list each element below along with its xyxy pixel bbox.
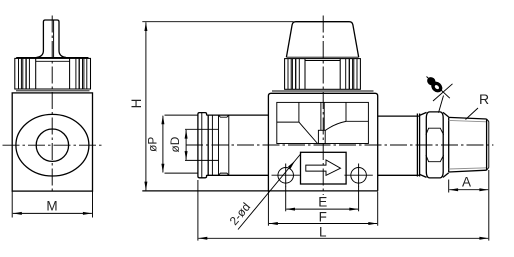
label R with leader — [466, 91, 490, 120]
ring flange line (main view) — [272, 90, 374, 92]
dimension A — [449, 174, 489, 192]
valve block outline (main view) — [268, 93, 377, 191]
dimension F — [268, 192, 377, 226]
block bottom and H extension line — [142, 190, 377, 192]
dimension H — [129, 22, 294, 191]
svg-text:øD: øD — [168, 137, 182, 153]
hex nut — [417, 112, 448, 178]
right slant — [325, 121, 346, 130]
knob knurled ring (main view) — [285, 57, 361, 89]
vertical centerline (main view) — [322, 16, 324, 196]
push-connect cap — [198, 113, 207, 178]
outer circle (left view) — [16, 114, 89, 176]
inner cavity box (main view) — [277, 102, 369, 143]
knob top trapezoid (main view) — [286, 22, 358, 58]
dimension øP — [146, 115, 198, 173]
svg-text:øP: øP — [146, 137, 160, 152]
svg-text:M: M — [46, 199, 57, 214]
dimension M — [12, 191, 92, 217]
left barrel — [207, 114, 269, 116]
tube diameter lines (øD geometry) — [185, 128, 219, 130]
right port circle — [344, 164, 372, 188]
svg-text:H: H — [129, 99, 144, 109]
stem tip — [318, 130, 325, 143]
ring flange line (left view) — [16, 90, 90, 92]
release collar — [208, 115, 229, 175]
svg-text:E: E — [318, 195, 327, 210]
threaded end R — [449, 117, 489, 172]
dimension E — [286, 187, 359, 212]
valve body square (left view) — [12, 93, 92, 191]
right cell divider — [345, 102, 347, 121]
svg-text:F: F — [319, 209, 327, 224]
knob centerline (left view) — [51, 16, 53, 192]
collar-barrel taper — [228, 115, 230, 175]
right barrel — [378, 115, 419, 117]
left diagonal — [299, 122, 318, 143]
dimension L — [198, 170, 489, 241]
svg-text:L: L — [319, 225, 327, 240]
svg-text:A: A — [462, 174, 471, 189]
horizontal centerline (main view) — [186, 144, 493, 146]
label 2-ød with leader — [227, 154, 301, 230]
sealant symbol (black) — [425, 75, 452, 112]
left cell divider — [298, 102, 300, 122]
knob stem (left view) — [37, 20, 66, 57]
horizontal centerline (left view) — [3, 144, 104, 146]
flow arrow box — [301, 152, 347, 184]
left port circle — [272, 164, 300, 188]
stem slot — [320, 102, 322, 130]
flow arrow — [306, 160, 341, 175]
dimension øD — [168, 130, 188, 161]
knurled ring (left view) — [15, 58, 91, 90]
inner circle (left view) — [36, 129, 68, 161]
svg-text:R: R — [479, 91, 489, 107]
